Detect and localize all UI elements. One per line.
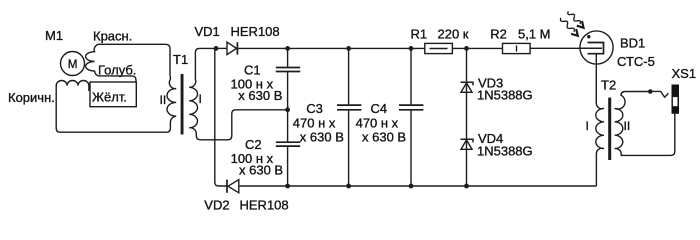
capacitor C4: [410, 48, 412, 104]
svg-text:C3: C3: [306, 101, 323, 116]
T2 core: [608, 98, 611, 160]
svg-text:I: I: [199, 92, 202, 106]
T2 winding I (left, bumps left): [596, 103, 604, 154]
wire XS1 to T2-II bottom: [621, 114, 675, 156]
svg-text:Красн.: Красн.: [93, 29, 132, 44]
svg-text:II: II: [624, 119, 631, 133]
svg-text:470 н х: 470 н х: [356, 116, 399, 131]
resistor R1: [425, 43, 453, 53]
svg-text:C2: C2: [245, 137, 262, 152]
svg-text:М: М: [68, 59, 78, 71]
BD1 gas dot: [587, 35, 590, 38]
wire Голуб.: [98, 76, 136, 82]
svg-text:220 к: 220 к: [438, 27, 469, 42]
svg-text:х 630 В: х 630 В: [362, 130, 406, 145]
svg-text:СТС-5: СТС-5: [617, 54, 655, 69]
R2 power mark 1W: [516, 45, 518, 51]
junction dot zener branch bottom: [464, 184, 469, 189]
plug contact hook: [650, 91, 668, 97]
svg-text:Жёлт.: Жёлт.: [92, 90, 127, 105]
svg-text:R1: R1: [411, 27, 428, 42]
BD1 cathode cup: [588, 43, 604, 54]
radiation arrow 1: [568, 11, 581, 24]
wire top rail: [216, 47, 227, 49]
svg-text:5,1 М: 5,1 М: [518, 27, 551, 42]
diode VD1 HER108: [227, 42, 237, 54]
junction dot C3 top: [346, 46, 351, 51]
motor aux winding (horizontal, bumps up): [56, 81, 89, 95]
radiation arrow 2: [561, 18, 575, 32]
motor main winding (vertical, bumps left): [86, 44, 99, 76]
capacitor C3: [348, 48, 350, 104]
wire T1-I top to rail: [195, 48, 216, 79]
junction dot C3 bottom: [346, 184, 351, 189]
svg-text:Т2: Т2: [601, 78, 616, 93]
resistor R2: [503, 43, 531, 53]
svg-text:470 н х: 470 н х: [293, 116, 336, 131]
jack XS1 body: [672, 85, 680, 114]
wire T2-I bottom to rail: [595, 154, 597, 186]
BD1 anode line: [580, 47, 602, 49]
plug pin dot XS1: [648, 89, 653, 94]
capacitor C2: [287, 110, 289, 142]
motor M1 circle: [61, 52, 85, 76]
svg-text:х 630 В: х 630 В: [239, 162, 283, 177]
geiger tube BD1 circle: [580, 31, 613, 64]
R1 power mark 0.5W: [430, 48, 448, 50]
wire zener branch: [466, 48, 468, 186]
svg-text:R2: R2: [490, 27, 507, 42]
zener VD4: [461, 140, 472, 149]
box Жёлт.: [90, 82, 136, 107]
T1 winding II (left, bumps left): [166, 76, 176, 132]
T1 winding I (right, bumps right): [189, 79, 197, 134]
wire top rail after VD1: [238, 47, 425, 49]
svg-text:х 630 В: х 630 В: [238, 88, 282, 103]
T2 winding II (right, bumps right): [615, 95, 625, 154]
wire R1 to node: [453, 47, 503, 49]
svg-text:HER108: HER108: [231, 24, 280, 39]
svg-text:VD1: VD1: [195, 24, 220, 39]
wire bottom rail: [240, 185, 597, 187]
diode VD2 HER108: [228, 180, 239, 193]
svg-text:XS1: XS1: [672, 66, 697, 81]
wire T2-II top to plug: [621, 92, 650, 97]
wire Красн. top: [98, 44, 170, 76]
wire R2 to tube: [531, 47, 603, 49]
wire node A down to VD2 cathode: [215, 48, 227, 186]
junction dot C4 top: [409, 46, 414, 51]
svg-text:Голуб.: Голуб.: [98, 63, 136, 78]
node A junction dot: [214, 46, 219, 51]
svg-text:C4: C4: [371, 101, 388, 116]
junction dot C1 top: [285, 46, 290, 51]
svg-text:BD1: BD1: [620, 36, 645, 51]
svg-text:Коричн.: Коричн.: [8, 90, 55, 105]
svg-text:1N5388G: 1N5388G: [477, 88, 533, 103]
svg-text:HER108: HER108: [240, 198, 289, 213]
junction dot C4 bottom: [409, 184, 414, 189]
svg-text:VD2: VD2: [204, 198, 229, 213]
svg-text:1N5388G: 1N5388G: [477, 143, 533, 158]
wire bottom-left loop: [56, 92, 167, 132]
wire T1-I bottom to C1C2 midpoint: [196, 110, 287, 140]
wire BD1 cathode to T2: [595, 54, 597, 104]
svg-text:I: I: [586, 119, 589, 133]
svg-text:C1: C1: [244, 62, 261, 77]
svg-text:М1: М1: [45, 28, 63, 43]
T1 core: [181, 74, 184, 135]
zener VD3: [461, 83, 472, 92]
junction dot C1/C2 midpoint: [285, 107, 290, 112]
capacitor C1: [287, 48, 289, 66]
junction dot C2 bottom: [285, 184, 290, 189]
svg-text:II: II: [160, 93, 167, 107]
svg-text:Т1: Т1: [173, 52, 188, 67]
junction dot zener branch top: [464, 46, 469, 51]
svg-text:х 630 В: х 630 В: [300, 130, 344, 145]
